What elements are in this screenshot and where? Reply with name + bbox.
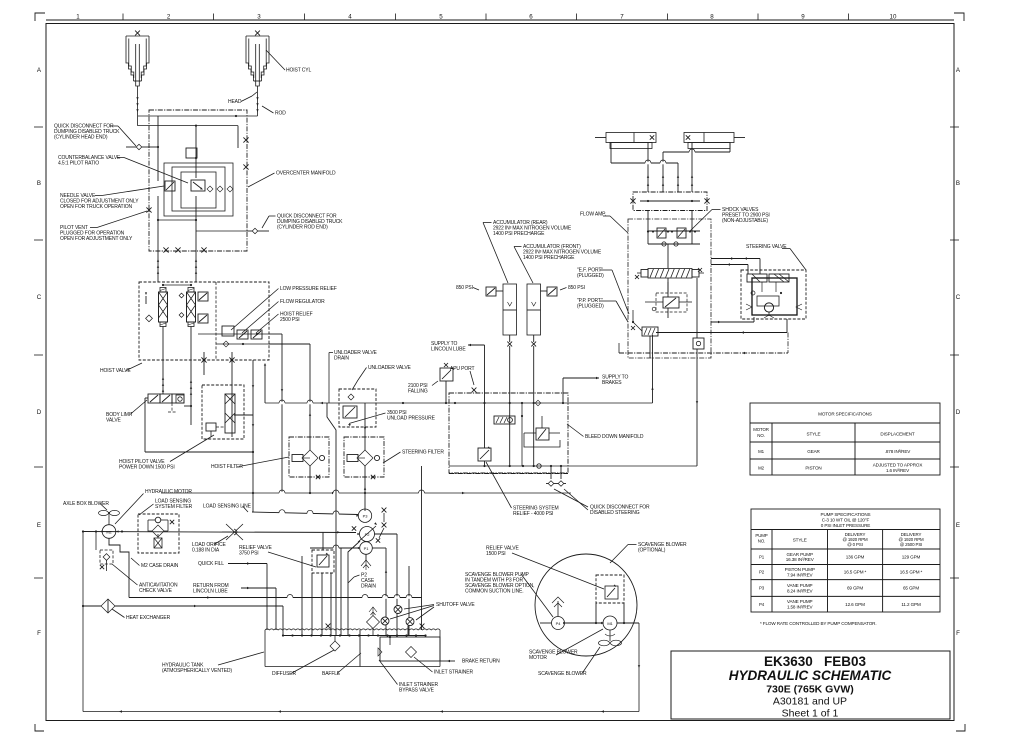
svg-text:4.5:1 PILOT RATIO: 4.5:1 PILOT RATIO [58,161,99,167]
svg-text:F: F [37,630,41,637]
svg-text:HEAD: HEAD [228,99,242,105]
svg-text:C-3 10 WT OIL @ 120°F: C-3 10 WT OIL @ 120°F [822,518,870,523]
svg-text:UNLOADER VALVE: UNLOADER VALVE [368,365,412,371]
svg-text:INLET STRAINER: INLET STRAINER [434,670,473,676]
svg-text:.878 IN³/REV: .878 IN³/REV [885,449,912,454]
svg-text:129 GPM: 129 GPM [902,554,921,559]
svg-text:3: 3 [257,14,261,21]
svg-text:STEERING VALVE: STEERING VALVE [746,244,787,250]
svg-text:@ 0 PSI: @ 0 PSI [847,542,863,547]
svg-text:(OPTIONAL): (OPTIONAL) [638,548,666,554]
svg-text:0 PSI INLET PRESSURE: 0 PSI INLET PRESSURE [821,523,870,528]
svg-text:16.5 GPM *: 16.5 GPM * [844,570,867,575]
svg-text:HEAT EXCHANGER: HEAT EXCHANGER [126,615,171,621]
svg-text:1.6 IN³/REV: 1.6 IN³/REV [886,468,910,473]
svg-text:1400 PSI PRECHARGE: 1400 PSI PRECHARGE [523,255,575,261]
svg-text:FALLING: FALLING [408,389,428,395]
svg-text:FLOW AMP.: FLOW AMP. [580,212,606,218]
svg-text:POWER DOWN 1500 PSI: POWER DOWN 1500 PSI [119,465,175,471]
svg-text:PUMP: PUMP [755,533,767,538]
svg-text:* FLOW RATE CONTROLLED BY PUM: * FLOW RATE CONTROLLED BY PUMP COMPENSAT… [760,621,877,626]
svg-text:P1: P1 [759,554,765,559]
svg-text:6: 6 [529,14,533,21]
svg-text:7.94 IN³/REV: 7.94 IN³/REV [787,572,814,577]
svg-text:BRAKE RETURN: BRAKE RETURN [462,659,500,665]
svg-text:PISTON PUMP: PISTON PUMP [785,567,815,572]
svg-text:DRAIN: DRAIN [361,584,376,590]
svg-text:850 PSI: 850 PSI [456,285,473,291]
svg-text:RELIEF - 4000 PSI: RELIEF - 4000 PSI [513,511,553,517]
svg-text:1: 1 [76,14,80,21]
svg-text:LINCOLN LUBE: LINCOLN LUBE [193,589,228,595]
svg-text:OPEN FOR TRUCK OPERATION: OPEN FOR TRUCK OPERATION [60,204,132,210]
svg-text:STYLE: STYLE [807,432,821,437]
svg-text:BYPASS VALVE: BYPASS VALVE [399,688,435,694]
svg-text:STEERING FILTER: STEERING FILTER [402,450,444,456]
svg-text:VANE PUMP: VANE PUMP [787,583,813,588]
svg-text:(NON-ADJUSTABLE): (NON-ADJUSTABLE) [722,218,768,224]
svg-text:PISTON: PISTON [805,466,821,471]
svg-text:65 GPM: 65 GPM [903,586,919,591]
svg-text:M2: M2 [758,466,765,471]
svg-text:730E (765K GVW): 730E (765K GVW) [766,684,854,696]
svg-text:1500 PSI: 1500 PSI [486,551,506,557]
svg-text:2500 PSI: 2500 PSI [280,317,300,323]
svg-text:ROD: ROD [275,111,286,117]
svg-text:NO.: NO. [758,539,765,544]
svg-text:69 GPM: 69 GPM [847,586,863,591]
svg-text:B: B [956,180,960,187]
svg-text:HYDRAULIC MOTOR: HYDRAULIC MOTOR [145,489,192,495]
svg-text:9: 9 [801,14,805,21]
svg-text:CHECK VALVE: CHECK VALVE [139,588,173,594]
svg-text:DISABLED STEERING: DISABLED STEERING [590,510,640,516]
svg-text:SYSTEM FILTER: SYSTEM FILTER [155,504,193,510]
svg-text:NO.: NO. [757,433,764,438]
svg-text:P3: P3 [759,586,765,591]
svg-text:M2: M2 [106,530,112,535]
svg-text:UNLOAD PRESSURE: UNLOAD PRESSURE [387,416,436,422]
svg-text:ADJUSTED TO APPROX: ADJUSTED TO APPROX [873,463,923,468]
svg-text:OVERCENTER MANIFOLD: OVERCENTER MANIFOLD [276,171,336,177]
svg-text:Sheet 1 of 1: Sheet 1 of 1 [782,708,839,720]
svg-text:BAFFLE: BAFFLE [322,671,341,677]
svg-text:2: 2 [167,14,171,21]
svg-text:LOAD SENSING LINE: LOAD SENSING LINE [203,504,252,510]
svg-text:EK3630: EK3630 [764,654,813,669]
svg-text:HOIST CYL: HOIST CYL [286,68,311,74]
svg-text:10: 10 [890,14,897,21]
svg-text:16.38 IN³/REV: 16.38 IN³/REV [786,557,815,562]
svg-text:0.188 IN DIA: 0.188 IN DIA [192,548,220,554]
svg-text:M2 CASE DRAIN: M2 CASE DRAIN [141,563,179,569]
svg-text:HOIST FILTER: HOIST FILTER [211,464,243,470]
svg-text:850 PSI: 850 PSI [568,285,585,291]
svg-text:DRAIN: DRAIN [334,356,349,362]
svg-text:7: 7 [620,14,624,21]
svg-text:C: C [956,294,961,301]
svg-text:16.5 GPM *: 16.5 GPM * [900,570,923,575]
svg-text:LOW PRESSURE RELIEF: LOW PRESSURE RELIEF [280,286,337,292]
svg-text:5: 5 [439,14,443,21]
svg-text:(PLUGGED): (PLUGGED) [577,304,604,310]
svg-text:LINCOLN LUBE: LINCOLN LUBE [431,347,466,353]
svg-text:M1: M1 [607,621,613,626]
svg-text:BRAKES: BRAKES [602,380,622,386]
svg-text:A30181 and UP: A30181 and UP [773,696,847,708]
svg-text:BLEED DOWN MANIFOLD: BLEED DOWN MANIFOLD [585,434,644,440]
svg-text:F: F [956,630,960,637]
svg-text:HOIST VALVE: HOIST VALVE [100,368,131,374]
svg-text:8.24 IN³/REV: 8.24 IN³/REV [787,588,814,593]
svg-text:8: 8 [710,14,714,21]
svg-text:(PLUGGED): (PLUGGED) [577,273,604,279]
svg-text:B: B [37,180,41,187]
svg-text:OPEN FOR ADJUSTMENT ONLY: OPEN FOR ADJUSTMENT ONLY [60,236,133,242]
svg-text:C: C [37,294,42,301]
svg-text:P2: P2 [759,570,765,575]
svg-text:3750 PSI: 3750 PSI [239,551,259,557]
svg-text:11.2 GPM: 11.2 GPM [901,602,921,607]
svg-text:D: D [37,409,42,416]
svg-text:E: E [956,522,960,529]
svg-text:DISPLACEMENT: DISPLACEMENT [880,432,915,437]
svg-text:M1: M1 [758,449,765,454]
svg-text:COMMON SUCTION LINE.: COMMON SUCTION LINE. [465,589,524,595]
svg-text:1400 PSI PRECHARGE: 1400 PSI PRECHARGE [493,231,545,237]
svg-text:(CYLINDER ROD END): (CYLINDER ROD END) [277,225,328,231]
svg-text:STYLE: STYLE [793,538,807,543]
svg-text:PUMP SPECIFICATIONS: PUMP SPECIFICATIONS [821,512,871,517]
svg-text:QUICK FILL: QUICK FILL [198,561,224,567]
svg-text:(ATMOSPHERICALLY VENTED): (ATMOSPHERICALLY VENTED) [162,668,232,674]
svg-text:SHUTOFF VALVE: SHUTOFF VALVE [436,602,475,608]
svg-text:FLOW REGULATOR: FLOW REGULATOR [280,299,325,305]
svg-text:APU PORT: APU PORT [450,366,475,372]
svg-text:1.58 IN³/REV: 1.58 IN³/REV [787,605,814,610]
svg-text:DIFFUSER: DIFFUSER [272,671,296,677]
svg-text:12.6 GPM: 12.6 GPM [845,602,865,607]
svg-text:SCAVENGE BLOWER: SCAVENGE BLOWER [538,671,587,677]
svg-text:@ 2500 PSI: @ 2500 PSI [900,542,922,547]
svg-text:FEB03: FEB03 [824,654,867,669]
svg-text:136 GPM: 136 GPM [846,554,865,559]
svg-text:P4: P4 [759,602,765,607]
svg-text:4: 4 [348,14,352,21]
svg-text:MOTOR: MOTOR [529,655,547,661]
svg-text:E: E [37,522,41,529]
svg-text:GEAR: GEAR [807,449,820,454]
svg-text:VALVE: VALVE [106,418,122,424]
svg-text:MOTOR: MOTOR [753,427,769,432]
svg-text:D: D [956,409,961,416]
svg-text:VANE PUMP: VANE PUMP [787,599,813,604]
svg-text:MOTOR SPECIFICATIONS: MOTOR SPECIFICATIONS [818,412,872,417]
svg-text:(CYLINDER HEAD END): (CYLINDER HEAD END) [54,135,108,141]
svg-text:GEAR PUMP: GEAR PUMP [786,552,812,557]
svg-text:HYDRAULIC SCHEMATIC: HYDRAULIC SCHEMATIC [729,668,892,683]
